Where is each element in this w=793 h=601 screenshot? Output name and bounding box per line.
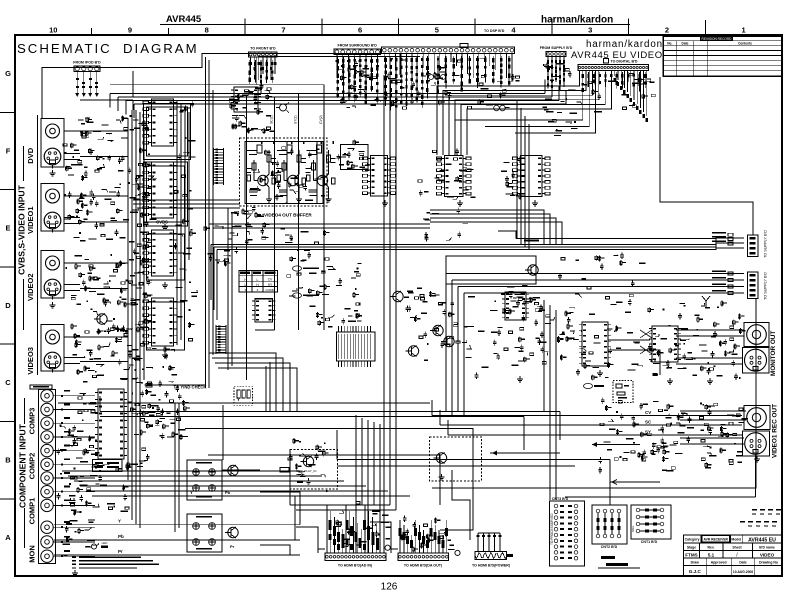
wire CV SC SY rec out lines <box>432 400 742 435</box>
ladder wire bundle bar upper <box>214 148 224 185</box>
IC 4052 switch A <box>363 156 396 197</box>
IC comparator <box>252 299 276 322</box>
svg-text:9: 9 <box>128 26 132 35</box>
wire loops around IC L4 <box>147 302 185 350</box>
title block table <box>683 535 782 576</box>
svg-text:Category: Category <box>685 538 700 542</box>
svg-text:Rev.: Rev. <box>708 545 715 549</box>
label stacks under supply header <box>547 58 565 90</box>
wire ipod collect line <box>80 100 133 110</box>
transistor small above buffer <box>276 102 289 113</box>
wire Y bus from comp <box>58 397 430 403</box>
wire vertical x213 <box>212 90 214 355</box>
svg-text:SC: SC <box>146 279 152 284</box>
cluster left of IC column <box>129 153 157 324</box>
connector TO FRONT B'D <box>249 52 278 57</box>
cluster VIDEO2 input parts <box>65 248 152 315</box>
svg-text:COMPONENT INPUT: COMPONENT INPUT <box>18 423 28 508</box>
cluster left-center transistor area <box>419 291 475 361</box>
svg-text:E: E <box>5 224 10 233</box>
svg-text:Pb: Pb <box>118 534 124 539</box>
svg-text:F: F <box>6 146 11 155</box>
cluster left-center rows <box>141 389 190 440</box>
wire right vertical from digital header to supply conn <box>660 77 753 235</box>
svg-text:G: G <box>5 69 11 78</box>
wire mid horizontal pair lower <box>337 430 610 505</box>
connector CNT2 B'D <box>592 505 627 549</box>
wire buffer outputs down to SY section <box>255 240 324 412</box>
connector CNT3 B'D <box>550 497 585 566</box>
wire rec out return bus <box>565 442 756 497</box>
svg-text:3: 3 <box>588 26 592 35</box>
cluster before monitor out <box>648 300 746 380</box>
transistor Q supply reg <box>525 265 538 276</box>
svg-text:COMP2: COMP2 <box>28 453 37 480</box>
svg-text:Stage: Stage <box>687 545 696 549</box>
oval label video4 out <box>30 385 52 389</box>
cluster under CV SC SY lines <box>647 409 694 449</box>
cluster rec out S-video parts <box>598 446 682 474</box>
svg-text:5: 5 <box>435 26 439 35</box>
svg-text:SY: SY <box>146 346 152 351</box>
wire vertical bus center-left x205 <box>205 57 207 388</box>
connector FROM SURROUND B'D <box>334 49 380 55</box>
cluster below supply transistor <box>501 285 540 311</box>
cluster around clip symbol <box>288 438 329 492</box>
svg-text:Draw: Draw <box>691 560 700 564</box>
ground symbol <box>599 370 601 373</box>
dashed box mon drive transistor <box>429 437 481 481</box>
cluster under digital header <box>577 73 656 112</box>
ground symbol <box>459 200 461 203</box>
dashed box VIDEO4 OUT BUFFER <box>240 138 327 206</box>
transistor buffer Q2 <box>284 174 302 202</box>
svg-text:10: 10 <box>49 26 57 35</box>
svg-text:TO FRONT B'D: TO FRONT B'D <box>250 47 276 51</box>
connector main top header <box>382 47 515 54</box>
svg-text:FROM SURROUND B'D: FROM SURROUND B'D <box>338 44 378 48</box>
svg-text:VIDEO: VIDEO <box>760 552 775 557</box>
cluster comp jacks parts <box>56 393 99 516</box>
connector group box VIDEO3 <box>41 325 64 372</box>
ground symbol <box>519 376 521 379</box>
S-video connector video1 rec out <box>743 431 770 456</box>
cluster VIDEO3 input parts <box>71 324 153 383</box>
svg-text:AVR445 EU: AVR445 EU <box>748 537 776 543</box>
svg-text:5.1: 5.1 <box>708 552 715 557</box>
wire verticals to supply bus from top <box>517 100 529 250</box>
RCA jack component input 3 <box>41 417 78 429</box>
S-video connector VIDEO1 <box>44 212 80 232</box>
connector FROM SUPPLY B'D top right <box>546 52 566 57</box>
wire main horizontal bus pair <box>100 396 560 450</box>
svg-text:Pr: Pr <box>230 544 235 549</box>
svg-text:L: L <box>257 278 259 282</box>
wire stubs video groups to buses <box>62 131 128 556</box>
ground symbol <box>308 478 310 481</box>
svg-text:DVD: DVD <box>26 147 35 163</box>
svg-text:CV(2): CV(2) <box>319 115 323 124</box>
svg-text:Y: Y <box>118 519 121 524</box>
svg-text:MONITOR OUT: MONITOR OUT <box>770 331 777 376</box>
svg-text:x: x <box>257 288 259 292</box>
bracket CVBS input group <box>23 146 25 181</box>
connector group box VIDEO2 <box>41 251 64 299</box>
wire mon Y Pb Pr lines <box>54 492 300 555</box>
label stacks under surround header <box>337 57 379 105</box>
X crossing wires before monitor IC <box>640 330 652 354</box>
RCA jack monitor out <box>744 323 769 347</box>
svg-text:Date: Date <box>682 41 689 45</box>
label stacks under main header <box>384 56 428 110</box>
RCA jack component input 10 <box>41 521 78 533</box>
ground symbol <box>756 456 758 459</box>
cluster left edge labels x415 <box>404 288 427 323</box>
oval label CV2 rec <box>584 383 605 388</box>
LED indicator part <box>85 541 108 549</box>
IC left column 4 SY switch <box>143 298 177 346</box>
ground DVD input <box>52 170 54 173</box>
svg-text:Approved: Approved <box>711 560 727 564</box>
label stacks under front header <box>249 60 274 93</box>
box under comp switch IC <box>93 460 123 472</box>
svg-text:AVR445: AVR445 <box>166 14 202 25</box>
svg-text:SCHEMATIC DIAGRAM: SCHEMATIC DIAGRAM <box>17 41 199 56</box>
wire horizontal bundle upper center <box>110 80 566 119</box>
risers above DA OUT header <box>398 520 448 553</box>
wires from front header <box>249 57 276 85</box>
wire hdmi riser bus horizontals <box>290 450 396 511</box>
svg-text:COMP3: COMP3 <box>28 408 37 435</box>
wire loops around IC L1 <box>144 104 191 160</box>
svg-text:FROM SUPPLY B'D: FROM SUPPLY B'D <box>540 46 573 50</box>
svg-text:CVBS: CVBS <box>156 220 168 225</box>
svg-text:TO DIGITAL B'D: TO DIGITAL B'D <box>610 60 637 64</box>
IC before monitor out <box>649 326 681 362</box>
RCA jack DVD composite input <box>46 124 81 138</box>
svg-text:FTMS: FTMS <box>685 552 698 557</box>
RCA jack VIDEO3 composite input <box>46 330 81 344</box>
left ruler row letters <box>0 69 15 542</box>
svg-text:B: B <box>5 456 11 465</box>
cluster around enhancer IC <box>560 287 642 381</box>
svg-text:CNT1 B'D: CNT1 B'D <box>641 540 658 544</box>
cluster before rec out conn <box>700 403 748 469</box>
notes text block <box>72 557 159 569</box>
ground symbol <box>164 352 166 355</box>
connector TO HDMI B'D (AD IN) <box>318 545 390 567</box>
S-video connector VIDEO2 <box>44 279 80 299</box>
wire verticals right of IC column <box>177 100 189 345</box>
svg-text:D: D <box>5 301 11 310</box>
svg-text:Date: Date <box>739 560 746 564</box>
svg-text:CNT3 B'D: CNT3 B'D <box>552 497 569 501</box>
svg-text:Model: Model <box>731 538 741 542</box>
RCA jack VIDEO2 composite input <box>46 256 81 270</box>
RCA jack component input 1 <box>41 390 78 402</box>
wire vertical x246 buffer feed <box>246 95 248 380</box>
connector to supply board upper <box>748 235 759 257</box>
svg-text:1: 1 <box>742 26 746 35</box>
dashed box rec out aux <box>613 381 633 403</box>
dashed box small IC above filters <box>234 386 253 405</box>
svg-text:MON: MON <box>28 545 37 563</box>
svg-text:TO PROCESSOR B'D: TO PROCESSOR B'D <box>550 513 554 545</box>
svg-text:TO DSP B'D: TO DSP B'D <box>484 29 505 33</box>
svg-text:126: 126 <box>381 582 398 593</box>
svg-text:TO HDMI B'D(AD IN): TO HDMI B'D(AD IN) <box>338 564 373 568</box>
svg-text:SDA: SDA <box>631 526 635 532</box>
cluster DVD input parts <box>63 115 151 181</box>
cluster around switch B <box>418 148 476 199</box>
svg-text:LED: LED <box>102 541 109 545</box>
RCA jack component input 6 <box>41 458 78 470</box>
svg-text:VIDEO1 REC OUT: VIDEO1 REC OUT <box>772 404 779 458</box>
svg-text:CVBS,S-VIDEO INPUT: CVBS,S-VIDEO INPUT <box>17 184 27 275</box>
risers above POWER header <box>477 533 502 552</box>
RCA jack VIDEO1 composite input <box>46 189 81 203</box>
cluster right of comparator IC <box>309 263 363 328</box>
cluster right of comp jacks rows <box>97 463 143 512</box>
filter network block 2 <box>187 514 222 552</box>
svg-text:8: 8 <box>205 26 209 35</box>
svg-text:COMP: COMP <box>266 288 275 292</box>
cluster VIDEO1 input parts <box>64 182 149 242</box>
cluster video3 area below <box>104 318 132 338</box>
wire arrow on lower bus <box>610 480 660 485</box>
wire TO Y/ND CHECK <box>146 384 206 390</box>
RCA jack component input 9 <box>41 499 78 511</box>
cluster mon jacks parts <box>62 519 99 556</box>
RCA jack component input 4 <box>41 431 78 443</box>
wire fan from digital header down-left <box>437 71 648 156</box>
svg-text:AVR RECEIVER: AVR RECEIVER <box>703 538 728 542</box>
cluster truth table right <box>287 256 335 297</box>
svg-text:CV: CV <box>645 410 651 415</box>
cluster above enhancer <box>558 253 645 287</box>
svg-text:No.: No. <box>667 41 672 45</box>
transistor Q left a <box>430 325 443 336</box>
transistor Q comp drive <box>301 456 314 467</box>
cluster top-center parts <box>339 58 420 109</box>
cluster around switch C <box>501 157 525 200</box>
RCA jack video1 rec out <box>744 406 770 430</box>
RCA jack component input 12 <box>41 550 78 562</box>
IC left column 3 SC switch <box>143 230 177 276</box>
svg-text:CNT2 B'D: CNT2 B'D <box>601 545 618 549</box>
connector to supply board lower <box>748 272 759 299</box>
cluster ad-in riser labels <box>335 502 391 547</box>
ground symbol <box>95 462 97 465</box>
connector FROM IPOD B'D <box>74 66 100 72</box>
cluster buffer internals <box>250 147 325 204</box>
label stacks under main header right part <box>437 56 511 93</box>
wire supply bus upper three lines <box>211 231 744 320</box>
wires fanning from main top header <box>384 54 512 83</box>
antenna node symbol near monitor out <box>702 296 710 308</box>
cluster mid verticals labels <box>204 225 234 266</box>
bracket component input group <box>24 398 26 424</box>
svg-text:Sheet: Sheet <box>732 545 742 549</box>
svg-text:VIDEO2: VIDEO2 <box>26 273 35 301</box>
connector group box DVD <box>41 119 64 168</box>
buffer stage components 1 <box>246 141 276 196</box>
svg-text:6: 6 <box>358 26 362 35</box>
buffer stage components 2 <box>276 141 306 196</box>
cluster center video parts <box>475 297 548 379</box>
ground symbol <box>669 378 671 381</box>
top ruler column numbers <box>49 26 746 35</box>
ground symbol <box>247 222 249 225</box>
cluster video3 right side <box>131 347 179 392</box>
IC left column 1 <box>143 99 177 146</box>
ground symbol <box>164 282 166 285</box>
svg-text:7: 7 <box>281 26 285 35</box>
svg-text:2: 2 <box>665 26 669 35</box>
transistor buffer Q3 <box>314 174 332 202</box>
svg-text:A: A <box>5 533 11 542</box>
wire buffer input verticals CV SY SC <box>110 85 324 240</box>
connector TO DIGITAL B'D <box>578 59 648 71</box>
cluster da-out riser labels <box>401 516 455 553</box>
cluster below buffer <box>231 205 269 254</box>
transistor Q filter2 drive <box>225 527 238 538</box>
revision record table <box>663 36 782 76</box>
svg-text:TO HDMI B'D(POWER): TO HDMI B'D(POWER) <box>472 564 511 568</box>
risers above AD IN header <box>327 505 384 553</box>
transistor Q rec amp <box>225 465 238 476</box>
connector TO HDMI B'D (DA OUT) <box>391 549 460 568</box>
connector CNT1 B'D <box>631 505 671 544</box>
ground symbol <box>384 200 386 203</box>
svg-text:10.AUG.2006: 10.AUG.2006 <box>733 570 753 574</box>
buffer stage components 3 <box>306 141 336 196</box>
wire nested elbows center-bottom <box>185 353 473 530</box>
IC comp switch <box>95 389 127 459</box>
S-video connector VIDEO3 <box>44 352 80 372</box>
cluster mid center sparse <box>423 208 468 242</box>
transistor buffer Q1 <box>254 174 272 202</box>
wire elbow bundle right of buffer <box>430 210 562 245</box>
legend resistor dashes <box>740 509 781 526</box>
svg-text:Contents: Contents <box>738 41 752 45</box>
S-video connector monitor out <box>743 348 770 374</box>
IC 4052 switch B <box>437 156 472 197</box>
cluster rec out line parts <box>599 398 686 464</box>
svg-text:SC: SC <box>645 420 652 425</box>
RCA jack component input 5 <box>41 444 78 456</box>
wire bottom-left angled runs <box>62 471 410 496</box>
supply line labels <box>712 232 733 295</box>
wire right vertical lower <box>432 298 756 488</box>
svg-text:Drawing No: Drawing No <box>759 560 778 564</box>
filter network block 1 <box>187 460 222 500</box>
cluster supply drop parts <box>542 63 577 136</box>
ground symbol <box>441 474 443 477</box>
RCA jack component input 7 <box>41 472 78 484</box>
cluster top middle ICs <box>229 83 275 134</box>
svg-text:SY(2): SY(2) <box>294 115 298 124</box>
wire right cluster connects <box>608 330 746 444</box>
oval label Pb PR IN lower <box>293 293 320 298</box>
cluster left of switch A <box>336 140 369 171</box>
wires from supply header <box>547 57 565 88</box>
label stacks under digital header inner <box>582 72 647 92</box>
wire arrow mid-bottom <box>490 451 560 456</box>
box around supply transistor <box>446 256 536 284</box>
wire hdmi elbows up-left <box>296 470 470 549</box>
IC 4052 switch C <box>513 156 551 197</box>
ladder wire bundle bar lower <box>216 325 226 354</box>
wire loops around IC L2 <box>144 162 188 226</box>
cluster SC PY labels mid <box>535 302 574 345</box>
svg-text:Pr: Pr <box>118 549 123 554</box>
wire left vertical buses <box>128 110 144 528</box>
ground VIDEO2 input <box>52 302 54 305</box>
cluster right of IC column <box>174 101 198 341</box>
inline connector circles top center <box>429 75 446 80</box>
ground symbol <box>534 200 536 203</box>
svg-text:G.J.C: G.J.C <box>689 569 702 574</box>
transistor Q video3 buf <box>390 291 403 302</box>
connector group box VIDEO1 <box>41 184 64 232</box>
IC video enhancer <box>579 322 611 366</box>
transistor Q video3 input <box>94 314 107 325</box>
IC center right <box>502 292 529 320</box>
svg-text:VIDEO1: VIDEO1 <box>26 206 35 234</box>
connector TO HDMI B'D (POWER) <box>472 552 513 568</box>
svg-text:C: C <box>5 378 11 387</box>
transistor Q mon drive <box>434 453 447 464</box>
cluster comp ic right <box>126 391 154 468</box>
wire misc top center runs <box>133 54 430 229</box>
svg-text:VIDEO3: VIDEO3 <box>26 347 35 375</box>
video group rail line <box>37 115 39 375</box>
logic truth table <box>239 271 278 292</box>
RCA jack component input 8 <box>41 486 78 498</box>
svg-text:Y: Y <box>237 397 240 402</box>
component input jack column box <box>39 390 56 564</box>
transistor Q left b <box>441 336 454 347</box>
IC video amp center (hatched) <box>337 326 376 367</box>
wire filter outputs <box>190 468 316 550</box>
dashed box comp drive transistor <box>290 450 338 490</box>
cluster between buffer and table <box>280 228 329 258</box>
cluster top fan parts <box>423 57 520 109</box>
svg-text:FROM IPOD B'D: FROM IPOD B'D <box>73 61 101 65</box>
inline connector circles center <box>494 105 506 111</box>
IC top middle <box>231 87 261 112</box>
wires from ipod header <box>75 72 99 98</box>
S-video connector DVD <box>44 148 80 168</box>
wires from surround header <box>335 55 379 84</box>
svg-text:harman/kardon: harman/kardon <box>586 39 663 50</box>
wire loops around IC L3 <box>147 234 185 280</box>
oval label Pb PR IN upper <box>293 266 320 271</box>
transistor Q sync sep <box>406 346 419 357</box>
RCA jack component input 11 <box>41 536 78 548</box>
RCA jack component input 2 <box>41 403 78 415</box>
svg-text:TO SUPPLY B'D: TO SUPPLY B'D <box>764 272 768 300</box>
svg-text:TO SUPPLY B'D: TO SUPPLY B'D <box>764 230 768 258</box>
svg-text:SC(2): SC(2) <box>270 115 274 124</box>
svg-text:harman/kardon: harman/kardon <box>541 15 613 26</box>
box around switch A input parts <box>341 145 369 170</box>
svg-text:*VIDEO4 OUT BUFFER: *VIDEO4 OUT BUFFER <box>262 213 312 218</box>
jumper bars below CNT2 <box>598 556 640 568</box>
ground component jacks <box>74 570 76 573</box>
svg-text:TO HDMI B'D(DA OUT): TO HDMI B'D(DA OUT) <box>404 564 443 568</box>
